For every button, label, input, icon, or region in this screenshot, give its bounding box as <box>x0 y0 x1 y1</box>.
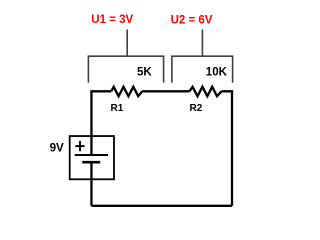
battery positive plate (long) <box>75 154 108 156</box>
U1 measurement bracket over R1 <box>88 56 163 82</box>
wire top-left segment <box>91 91 111 136</box>
svg-text:R1: R1 <box>111 103 124 114</box>
wire top-right segment and right side down <box>222 91 233 206</box>
svg-text:U1 = 3V: U1 = 3V <box>91 14 133 26</box>
resistor R2 zigzag <box>190 87 222 96</box>
resistor R1 zigzag <box>111 87 142 96</box>
svg-text:R2: R2 <box>190 103 203 114</box>
battery wire into positive plate <box>90 136 92 155</box>
svg-text:9V: 9V <box>50 142 64 155</box>
wire left-bottom segment (battery to bottom wire) <box>90 162 92 206</box>
battery plus sign <box>75 141 84 151</box>
wire bottom segment <box>91 205 232 207</box>
svg-text:5K: 5K <box>137 66 152 78</box>
svg-text:10K: 10K <box>206 67 228 79</box>
battery V1 outline box <box>70 136 114 179</box>
wire between R1 and R2 <box>142 90 189 92</box>
U1 pointer stem <box>126 30 128 57</box>
svg-text:U2 = 6V: U2 = 6V <box>171 14 213 26</box>
battery negative plate (short) <box>82 161 100 164</box>
U2 pointer stem <box>201 30 203 57</box>
U2 measurement bracket over R2 <box>172 56 233 82</box>
